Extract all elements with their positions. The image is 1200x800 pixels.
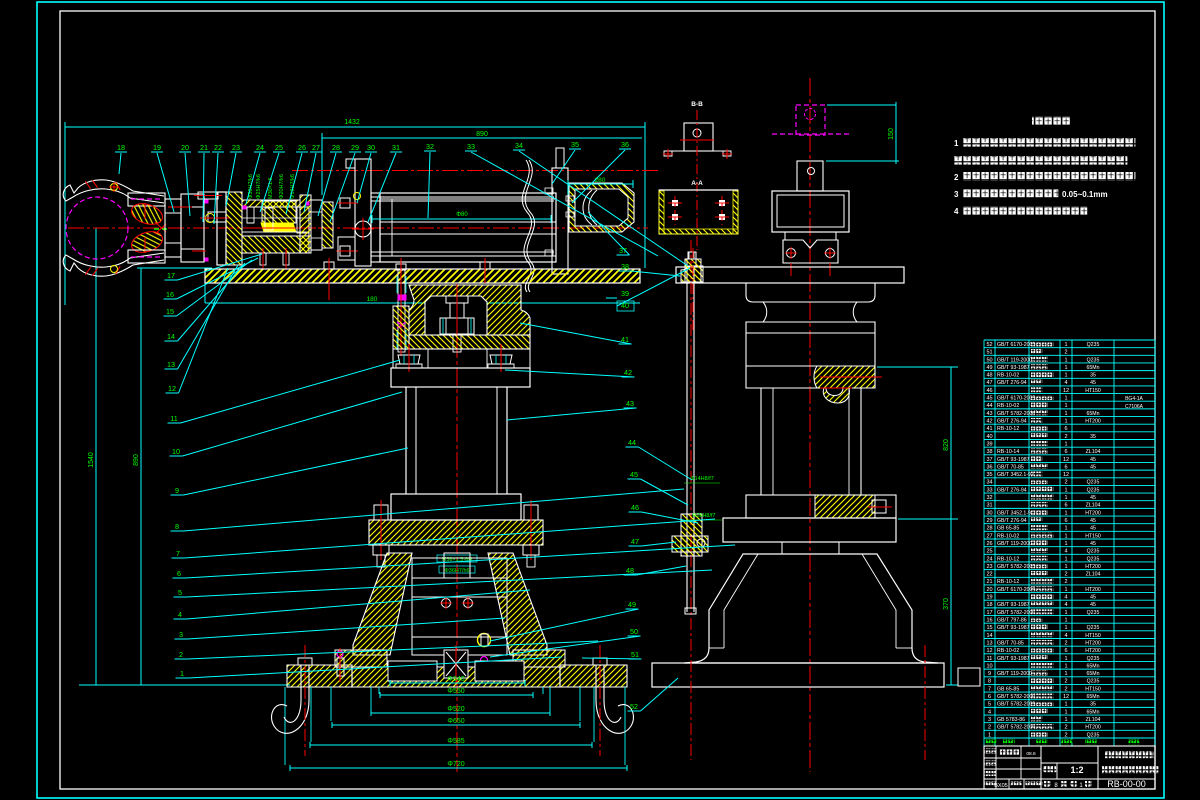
svg-text:39: 39 <box>986 441 992 447</box>
housing cavity <box>242 207 309 236</box>
svg-text:HT200: HT200 <box>1085 510 1101 516</box>
svg-text:3: 3 <box>179 630 183 639</box>
svg-text:Φ340: Φ340 <box>447 676 464 683</box>
svg-text:4: 4 <box>1064 595 1067 601</box>
svg-text:11: 11 <box>170 414 177 423</box>
tech req line 2 <box>954 156 1127 165</box>
svg-text:1:2: 1:2 <box>1070 765 1083 775</box>
svg-text:7: 7 <box>988 686 991 692</box>
cylinder front plate <box>371 193 380 262</box>
table2 <box>723 518 896 542</box>
bell inner lines <box>724 554 758 648</box>
svg-text:GB/T 5782-2000: GB/T 5782-2000 <box>997 702 1035 708</box>
svg-text:GB/T 5782-2000: GB/T 5782-2000 <box>997 610 1035 616</box>
flange bolts right <box>524 505 538 520</box>
svg-text:890: 890 <box>133 454 140 466</box>
svg-text:6: 6 <box>1064 648 1067 654</box>
svg-text:HT150: HT150 <box>1085 633 1101 639</box>
svg-text:BX05: BX05 <box>994 783 1007 789</box>
wrist hub <box>165 199 181 257</box>
flange bolts left <box>374 505 388 520</box>
svg-text:35: 35 <box>986 472 992 478</box>
svg-text:45: 45 <box>1090 457 1096 463</box>
svg-text:ZL104: ZL104 <box>1086 449 1101 455</box>
dimension line 1432 top <box>65 126 645 128</box>
lower jaw pad ellipse <box>129 228 165 256</box>
svg-text:15: 15 <box>986 625 992 631</box>
svg-text:Φ20H7/k6: Φ20H7/k6 <box>279 174 285 199</box>
svg-text:19: 19 <box>986 595 992 601</box>
svg-text:2: 2 <box>1064 725 1067 731</box>
housing magenta seals <box>243 206 246 209</box>
svg-text:Φ650: Φ650 <box>447 718 464 725</box>
title block bottom row <box>985 782 996 787</box>
svg-text:2: 2 <box>988 725 991 731</box>
svg-text:4: 4 <box>178 610 182 619</box>
waist concave <box>763 302 857 322</box>
svg-text:12: 12 <box>1063 472 1069 478</box>
svg-text:17: 17 <box>167 271 175 280</box>
svg-text:RB-10-02: RB-10-02 <box>997 533 1019 539</box>
elbow flange bolts <box>566 196 574 201</box>
svg-text:Φ14H8/f7: Φ14H8/f7 <box>690 476 714 482</box>
svg-text:RB-10-02: RB-10-02 <box>997 648 1019 654</box>
svg-text:18: 18 <box>117 143 125 152</box>
head center hex nut <box>440 318 474 334</box>
svg-text:29: 29 <box>351 143 359 152</box>
svg-text:24: 24 <box>986 556 992 562</box>
svg-text:35: 35 <box>1090 373 1096 379</box>
svg-text:21: 21 <box>200 143 208 152</box>
elbow fitting hatch <box>569 183 634 232</box>
svg-text:31: 31 <box>392 143 400 152</box>
head screw shaft <box>453 334 461 352</box>
svg-text:HT200: HT200 <box>1085 587 1101 593</box>
svg-text:GB/T 119-2000: GB/T 119-2000 <box>997 541 1032 547</box>
base plate hatch <box>287 665 352 687</box>
scale cell <box>1043 766 1057 772</box>
svg-text:45: 45 <box>1090 541 1096 547</box>
center tube <box>444 553 470 578</box>
svg-text:45: 45 <box>1090 380 1096 386</box>
svg-text:ZL104: ZL104 <box>1086 572 1101 578</box>
svg-text:15: 15 <box>166 307 174 316</box>
motor mount bracket <box>783 240 838 263</box>
svg-text:GB/T 276-94: GB/T 276-94 <box>997 518 1027 524</box>
svg-text:2: 2 <box>1064 434 1067 440</box>
svg-text:34: 34 <box>515 141 523 150</box>
svg-text:14: 14 <box>986 633 992 639</box>
svg-text:HT200: HT200 <box>1085 564 1101 570</box>
svg-text:Q235: Q235 <box>1087 610 1100 616</box>
svg-text:35: 35 <box>571 140 579 149</box>
svg-text:1: 1 <box>1064 671 1067 677</box>
svg-text:GB 5783-86: GB 5783-86 <box>997 717 1025 723</box>
svg-text:820: 820 <box>943 439 950 451</box>
svg-text:2: 2 <box>1064 732 1067 738</box>
svg-text:GB/T 276-94: GB/T 276-94 <box>997 380 1027 386</box>
svg-text:1: 1 <box>1064 610 1067 616</box>
title block frame <box>984 746 1155 789</box>
J-hook bolt left <box>298 658 312 665</box>
elbow inner curve <box>583 190 592 225</box>
svg-text:3: 3 <box>988 717 991 723</box>
svg-text:45: 45 <box>1090 495 1096 501</box>
svg-text:45: 45 <box>1090 518 1096 524</box>
svg-text:RB-10-02: RB-10-02 <box>997 373 1019 379</box>
cylinder tie rods <box>371 196 554 198</box>
svg-text:27: 27 <box>312 143 320 152</box>
svg-text:65Mn: 65Mn <box>1087 694 1100 700</box>
school name <box>1105 751 1153 758</box>
svg-text:R28H8/f7: R28H8/f7 <box>692 513 715 519</box>
svg-text:GB/T 5782-2000: GB/T 5782-2000 <box>997 411 1035 417</box>
svg-text:23: 23 <box>986 564 992 570</box>
svg-text:8: 8 <box>175 522 179 531</box>
svg-text:HT200: HT200 <box>1085 640 1101 646</box>
svg-text:ZL104: ZL104 <box>1086 503 1101 509</box>
upper red centerline cylinder <box>292 170 660 172</box>
svg-text:Q235: Q235 <box>1087 487 1100 493</box>
title block left cells <box>985 749 996 754</box>
svg-text:28: 28 <box>332 143 340 152</box>
svg-text:1: 1 <box>1064 373 1067 379</box>
svg-text:4: 4 <box>954 207 959 216</box>
base slab right view <box>652 663 944 687</box>
baseline reference <box>79 684 290 686</box>
svg-text:1: 1 <box>1064 656 1067 662</box>
svg-text:65Mn: 65Mn <box>1087 663 1100 669</box>
svg-text:45: 45 <box>630 470 638 479</box>
extension L pillar <box>204 270 206 303</box>
svg-text:18: 18 <box>986 602 992 608</box>
lower flange <box>391 494 521 520</box>
svg-text:32: 32 <box>426 142 434 151</box>
svg-text:RB-10-14: RB-10-14 <box>997 449 1019 455</box>
A-A bolts <box>673 201 678 206</box>
rear small bolts <box>545 188 553 194</box>
svg-text:3: 3 <box>954 190 959 199</box>
rotary head dome <box>425 296 487 335</box>
legs <box>760 388 762 495</box>
svg-text:Q235: Q235 <box>1087 679 1100 685</box>
svg-text:GB/T 70-85: GB/T 70-85 <box>997 640 1024 646</box>
svg-text:GB/T 93-1987: GB/T 93-1987 <box>997 457 1030 463</box>
svg-text:RB-10-12: RB-10-12 <box>997 556 1019 562</box>
gripper object circle (phantom) <box>66 197 128 259</box>
wrist bolt lower <box>208 212 226 222</box>
svg-text:1: 1 <box>1064 495 1067 501</box>
svg-text:29: 29 <box>986 518 992 524</box>
svg-text:Q235: Q235 <box>1087 656 1100 662</box>
housing bottom block <box>242 236 309 253</box>
right height dimension 820 <box>950 367 952 685</box>
svg-text:Q235: Q235 <box>1087 625 1100 631</box>
sheet cell <box>1044 781 1051 787</box>
cylinder head plate <box>355 159 371 266</box>
svg-text:150: 150 <box>888 128 895 140</box>
svg-text:16: 16 <box>986 618 992 624</box>
svg-text:4: 4 <box>1064 633 1067 639</box>
svg-text:HT150: HT150 <box>1085 533 1101 539</box>
svg-text:35: 35 <box>1090 702 1096 708</box>
svg-text:45: 45 <box>1090 526 1096 532</box>
vertical dimension 890 left <box>140 268 142 685</box>
head plate hex bolts <box>340 198 350 208</box>
svg-text:GB/T 5782-2000: GB/T 5782-2000 <box>997 694 1035 700</box>
svg-text:GB/T 93-1987: GB/T 93-1987 <box>997 625 1030 631</box>
svg-text:180: 180 <box>367 296 378 303</box>
svg-text:890: 890 <box>476 131 488 138</box>
rotary head body <box>409 285 530 335</box>
svg-text:48: 48 <box>626 566 634 575</box>
housing right wall <box>300 195 311 253</box>
svg-text:1: 1 <box>1064 365 1067 371</box>
svg-text:RB-10-02: RB-10-02 <box>997 403 1019 409</box>
right view vertical centerline <box>809 78 811 772</box>
BOM table grid <box>983 340 985 746</box>
svg-text:25: 25 <box>275 143 283 152</box>
svg-text:32: 32 <box>986 495 992 501</box>
platform bolt A <box>324 262 334 269</box>
bell trapezoid right view <box>684 554 938 663</box>
svg-text:25: 25 <box>986 549 992 555</box>
svg-text:20: 20 <box>986 587 992 593</box>
svg-text:20: 20 <box>181 143 189 152</box>
svg-text:19: 19 <box>153 143 161 152</box>
svg-text:13: 13 <box>986 640 992 646</box>
svg-text:2: 2 <box>179 650 183 659</box>
svg-text:49: 49 <box>628 600 636 609</box>
svg-text:A-A: A-A <box>691 180 703 187</box>
svg-text:2: 2 <box>1064 679 1067 685</box>
svg-text:Φ585: Φ585 <box>447 738 464 745</box>
svg-text:Q235: Q235 <box>1087 732 1100 738</box>
clamp wedge at table left <box>681 266 703 282</box>
svg-text:GB/T 5782-2000: GB/T 5782-2000 <box>997 725 1035 731</box>
svg-text:2: 2 <box>1064 579 1067 585</box>
svg-text:38: 38 <box>621 262 629 271</box>
drawing name <box>1102 766 1158 773</box>
svg-text:40: 40 <box>986 434 992 440</box>
svg-text:6: 6 <box>988 694 991 700</box>
svg-text:HT150: HT150 <box>1085 388 1101 394</box>
svg-text:9: 9 <box>175 486 179 495</box>
svg-text:42: 42 <box>986 419 992 425</box>
svg-text:65Mn: 65Mn <box>1087 365 1100 371</box>
slab red centerlines <box>690 240 692 760</box>
svg-text:39: 39 <box>621 289 629 298</box>
svg-text:6: 6 <box>1064 426 1067 432</box>
claw hatch ticks <box>85 181 90 188</box>
svg-text:C7106A: C7106A <box>1125 404 1144 410</box>
svg-text:45: 45 <box>1090 602 1096 608</box>
svg-text:45: 45 <box>1090 464 1096 470</box>
svg-text:Q235: Q235 <box>1087 342 1100 348</box>
svg-text:33: 33 <box>986 487 992 493</box>
base pocket left <box>388 661 437 681</box>
svg-text:51: 51 <box>631 650 639 659</box>
svg-text:36: 36 <box>986 464 992 470</box>
head flange hatch band <box>409 335 530 349</box>
svg-text:280: 280 <box>595 177 606 184</box>
svg-text:Φ550: Φ550 <box>447 688 464 695</box>
svg-text:36: 36 <box>621 140 629 149</box>
svg-text:GB/T 93-1987: GB/T 93-1987 <box>997 656 1030 662</box>
svg-text:1: 1 <box>1064 396 1067 402</box>
svg-text:47: 47 <box>986 380 992 386</box>
svg-text:46: 46 <box>986 388 992 394</box>
svg-text:4: 4 <box>1064 380 1067 386</box>
svg-text:1: 1 <box>954 139 959 148</box>
main horizontal centerline <box>68 227 648 229</box>
gripper lower claw <box>63 253 164 276</box>
svg-text:50: 50 <box>986 357 992 363</box>
head center screw cap <box>446 296 468 303</box>
coupling hatch <box>322 202 333 248</box>
rear bracket plate <box>552 168 568 274</box>
control rod <box>686 268 688 612</box>
svg-text:1: 1 <box>1064 556 1067 562</box>
bolt band <box>393 349 530 368</box>
svg-text:52: 52 <box>630 702 638 711</box>
column tube <box>405 387 407 494</box>
svg-text:47: 47 <box>631 537 639 546</box>
svg-text:GB/T 797-86: GB/T 797-86 <box>997 618 1027 624</box>
gripper upper claw <box>63 180 164 203</box>
svg-text:26: 26 <box>986 541 992 547</box>
svg-text:43: 43 <box>626 399 634 408</box>
svg-text:1: 1 <box>1064 510 1067 516</box>
base bell right hatch <box>488 553 547 655</box>
dimension 150 phantom <box>826 102 899 164</box>
vertical dimension 1540 left <box>95 228 97 685</box>
svg-text:22: 22 <box>214 143 222 152</box>
svg-text:GB/T 93-1987: GB/T 93-1987 <box>997 602 1030 608</box>
svg-text:5: 5 <box>988 702 991 708</box>
svg-text:1: 1 <box>1064 533 1067 539</box>
svg-text:1: 1 <box>1064 487 1067 493</box>
dim extension verticals <box>378 687 380 694</box>
svg-text:GB/T 6170-2000: GB/T 6170-2000 <box>997 587 1035 593</box>
svg-text:2: 2 <box>1064 572 1067 578</box>
svg-text:HT200: HT200 <box>1085 648 1101 654</box>
svg-text:17: 17 <box>986 610 992 616</box>
svg-text:41: 41 <box>986 426 992 432</box>
svg-text:49: 49 <box>986 365 992 371</box>
svg-text:9: 9 <box>988 671 991 677</box>
svg-text:6: 6 <box>1064 464 1067 470</box>
svg-text:31: 31 <box>986 503 992 509</box>
lower jaw slide <box>128 250 165 263</box>
band hex bolt right <box>490 355 512 364</box>
svg-text:GB/T 70-85: GB/T 70-85 <box>997 464 1024 470</box>
svg-text:65Mn: 65Mn <box>1087 411 1100 417</box>
svg-text:08.6: 08.6 <box>1026 751 1036 757</box>
svg-text:12: 12 <box>1063 694 1069 700</box>
svg-text:GB/T 276-94: GB/T 276-94 <box>997 487 1027 493</box>
svg-text:GB/T 93-1987: GB/T 93-1987 <box>997 365 1030 371</box>
gear cluster <box>247 207 254 223</box>
svg-text:BG4-1A: BG4-1A <box>1125 396 1143 402</box>
svg-text:24: 24 <box>256 143 264 152</box>
svg-text:2: 2 <box>954 173 959 182</box>
phantom gripper position <box>796 105 825 135</box>
svg-text:11: 11 <box>987 656 993 662</box>
svg-text:RB-00-00: RB-00-00 <box>1107 779 1146 789</box>
svg-text:1: 1 <box>1064 403 1067 409</box>
svg-text:6: 6 <box>177 569 181 578</box>
band hex bolt left <box>398 355 420 364</box>
svg-text:7: 7 <box>176 549 180 558</box>
drain plug <box>478 634 491 647</box>
svg-text:8: 8 <box>988 679 991 685</box>
B-B pedestal <box>684 123 713 151</box>
rod clamp hatch <box>681 514 702 556</box>
wing bolt with magenta ring <box>337 651 343 657</box>
grip point marks <box>155 222 166 232</box>
platform bolt C <box>480 262 490 269</box>
svg-text:GB/T 119-2000: GB/T 119-2000 <box>997 357 1032 363</box>
svg-text:M30×1.5: M30×1.5 <box>268 177 274 199</box>
svg-text:33: 33 <box>467 142 475 151</box>
svg-text:0.05~0.1mm: 0.05~0.1mm <box>1062 190 1108 199</box>
svg-text:Q235: Q235 <box>1087 556 1100 562</box>
svg-text:1: 1 <box>1064 419 1067 425</box>
svg-text:GB/T 3452.1-92: GB/T 3452.1-92 <box>997 510 1034 516</box>
svg-text:21: 21 <box>986 579 992 585</box>
neck <box>782 542 839 554</box>
drum bearing hatch <box>814 366 875 403</box>
svg-text:4: 4 <box>1064 602 1067 608</box>
svg-text:22: 22 <box>986 572 992 578</box>
collar <box>746 495 896 518</box>
svg-text:50: 50 <box>630 627 638 636</box>
svg-text:Q235: Q235 <box>1087 549 1100 555</box>
svg-text:1540: 1540 <box>88 452 95 468</box>
svg-text:Φ720: Φ720 <box>447 761 464 768</box>
anchor bolt detail <box>685 259 701 282</box>
svg-text:Φ80: Φ80 <box>456 212 468 218</box>
platform slab hatch <box>205 269 640 283</box>
svg-text:GB/T 119-2000: GB/T 119-2000 <box>997 671 1032 677</box>
svg-text:2: 2 <box>1064 640 1067 646</box>
table top band right view <box>676 267 904 283</box>
svg-text:38: 38 <box>986 449 992 455</box>
svg-text:GB 65-85: GB 65-85 <box>997 686 1019 692</box>
svg-text:16: 16 <box>166 290 174 299</box>
svg-text:B-B: B-B <box>691 101 703 108</box>
svg-text:51: 51 <box>986 350 992 356</box>
column vertical centerline <box>456 284 458 772</box>
A-A frame <box>659 190 738 234</box>
svg-text:HT200: HT200 <box>1085 419 1101 425</box>
arm bracket small <box>797 161 823 191</box>
svg-text:1432: 1432 <box>344 119 360 126</box>
svg-text:Φ25H7/k6: Φ25H7/k6 <box>256 174 262 199</box>
svg-text:46: 46 <box>631 503 639 512</box>
pneumatic cylinder body <box>380 193 556 262</box>
svg-text:1: 1 <box>1064 587 1067 593</box>
svg-text:6: 6 <box>1064 503 1067 509</box>
svg-text:6: 6 <box>1064 518 1067 524</box>
svg-text:1: 1 <box>1064 342 1067 348</box>
svg-text:1: 1 <box>1064 564 1067 570</box>
svg-text:5: 5 <box>178 588 182 597</box>
wrist body <box>181 194 204 262</box>
BOM header row green <box>986 740 998 745</box>
J-hook bolt right <box>593 658 607 665</box>
